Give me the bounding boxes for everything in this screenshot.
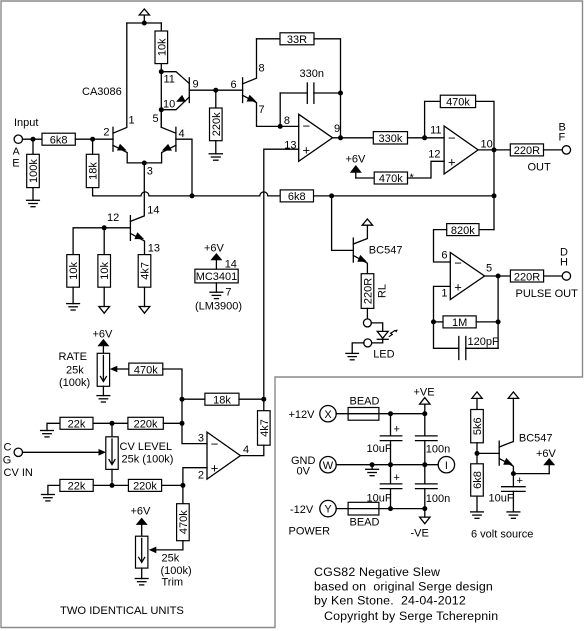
svg-text:(LM3900): (LM3900) <box>195 301 242 313</box>
capacitor 330n <box>280 83 340 103</box>
junction op1 inverting node <box>278 124 283 129</box>
resistor 18k input <box>86 139 99 187</box>
wiper arrow CV <box>99 449 107 456</box>
svg-text:470k: 470k <box>178 510 190 534</box>
+6V arrow for 470k* <box>346 154 367 179</box>
svg-text:+6V: +6V <box>131 506 152 518</box>
wire 10k#2 drop <box>103 228 105 255</box>
wire node3 down to Q14 collector <box>130 163 144 221</box>
resistor 18k slew <box>205 393 239 406</box>
+6V arrow MC3401 <box>204 243 225 270</box>
resistor 6k8 divider <box>471 464 484 496</box>
wire 5k6 to node <box>476 443 478 464</box>
wire CV in to pot <box>23 451 103 453</box>
ground under 220k <box>209 141 222 161</box>
+VE symbol BC547 source <box>508 392 518 399</box>
wire +12V rail <box>336 413 425 415</box>
transistor BC547 (6V source) <box>477 398 513 473</box>
svg-text:220R: 220R <box>514 271 540 283</box>
svg-text:based on original Serge desig: based on original Serge design <box>314 580 493 594</box>
svg-text:F: F <box>559 131 566 143</box>
svg-text:+12V: +12V <box>289 409 316 421</box>
wire input to 6k8 <box>23 138 43 140</box>
svg-text:33R: 33R <box>287 34 307 46</box>
junction base node 9/6 <box>213 88 218 93</box>
wire 0V rail <box>336 464 438 466</box>
junction 18k top <box>90 137 95 142</box>
resistor 470k* <box>374 172 414 185</box>
terminal pad X <box>320 406 336 422</box>
terminal pad LED- <box>364 339 372 347</box>
resistor 4k7 mid <box>138 255 151 288</box>
svg-text:8: 8 <box>284 115 290 127</box>
svg-text:RL: RL <box>377 284 389 298</box>
svg-text:470k: 470k <box>379 173 403 185</box>
wire op3 out <box>485 275 511 277</box>
wire 470k feedback right down <box>476 101 494 149</box>
svg-text:100n: 100n <box>426 444 450 456</box>
wire top rail <box>127 22 162 24</box>
svg-text:-VE: -VE <box>411 528 429 540</box>
ground 6k8 <box>471 496 484 518</box>
svg-text:7: 7 <box>225 287 231 299</box>
svg-text:6k8: 6k8 <box>472 471 484 489</box>
wire node to 220k <box>215 90 217 108</box>
transistor Q 12/14/13 <box>104 216 144 255</box>
svg-text:5: 5 <box>153 113 159 125</box>
junction BC547 base node <box>329 193 334 198</box>
wire 330k to op2 minus <box>408 137 445 139</box>
arrow emitter pin13 <box>134 232 144 239</box>
potentiometer RATE 25k <box>97 353 109 386</box>
svg-text:220R: 220R <box>514 145 540 157</box>
svg-text:6k8: 6k8 <box>288 191 306 203</box>
junction 220k upper right <box>180 421 185 426</box>
svg-text:3: 3 <box>147 166 153 178</box>
resistor 10k #1 <box>67 255 80 288</box>
wire lower row <box>93 484 128 486</box>
terminal pad LED+ <box>363 319 371 327</box>
junction -12V/10uF <box>388 506 393 511</box>
svg-text:H: H <box>560 256 568 268</box>
wire 470k to rail <box>163 369 207 444</box>
wire 470k bottom to trim wiper <box>153 541 183 550</box>
wire MC3401 pin7 <box>215 283 217 292</box>
junction pin4 base node <box>190 193 195 198</box>
transistor CA3086 Q 2/1/3 <box>113 127 144 163</box>
svg-text:Y: Y <box>324 504 332 516</box>
svg-text:11: 11 <box>430 125 441 137</box>
potentiometer trim 25k <box>136 536 148 568</box>
transistor CA3086 Q 6/8/7 <box>216 39 280 127</box>
resistor 470k RATE <box>129 363 163 376</box>
arrow emitter pin3 left <box>117 144 127 151</box>
junction pot bottom <box>110 483 115 488</box>
LED symbol <box>377 331 388 339</box>
arrow emitter pin7 <box>247 95 257 102</box>
IC box MC3401 <box>195 269 238 283</box>
svg-text:18k: 18k <box>88 162 100 180</box>
op-amp U1A (pins 8,13,9) <box>299 114 333 161</box>
svg-text:3: 3 <box>198 433 204 445</box>
svg-text:+: + <box>454 280 462 295</box>
junction -12V/-VE <box>422 506 427 511</box>
transistor CA3086 Q 5/4/3 <box>144 110 192 196</box>
svg-text:0V: 0V <box>297 465 311 477</box>
svg-text:10k: 10k <box>156 38 168 56</box>
capacitor 120pF <box>434 322 499 360</box>
terminal pad W <box>320 457 336 473</box>
svg-text:−: − <box>448 131 456 146</box>
svg-text:Input: Input <box>14 117 38 129</box>
wire into op1 minus <box>280 125 299 127</box>
svg-text:+: + <box>211 460 219 475</box>
ground 100k <box>27 188 40 207</box>
junction rail/6k8 row <box>492 193 497 198</box>
svg-text:+: + <box>394 472 400 484</box>
ground MC3401 <box>210 292 223 298</box>
-VE symbol under 4k7 <box>139 287 150 313</box>
svg-text:I: I <box>445 460 448 472</box>
wire +6V to 470k* <box>356 177 374 179</box>
resistor 820k <box>447 224 479 237</box>
terminal pad D/H pulse <box>562 272 570 280</box>
svg-text:12: 12 <box>428 149 440 161</box>
LED light arrows <box>389 331 395 337</box>
svg-text:+: + <box>448 155 456 170</box>
svg-text:8: 8 <box>259 63 265 75</box>
svg-text:220k: 220k <box>134 419 158 431</box>
wire 4k7 to op4 out <box>240 445 263 455</box>
svg-text:POWER: POWER <box>289 525 331 537</box>
+VE rail symbol top <box>139 9 149 23</box>
resistor 330k <box>373 132 407 145</box>
svg-text:(100k): (100k) <box>59 377 90 389</box>
wire 220k right <box>163 422 182 424</box>
wire base to 10k#1 <box>73 228 104 255</box>
resistor 220k lower <box>128 479 161 492</box>
resistor 6k8 input <box>42 133 75 146</box>
svg-text:10uF: 10uF <box>367 443 392 455</box>
svg-text:22k: 22k <box>68 481 86 493</box>
svg-text:1: 1 <box>129 115 135 127</box>
svg-text:TWO IDENTICAL UNITS: TWO IDENTICAL UNITS <box>60 605 184 617</box>
wiper arrow RATE <box>110 366 118 373</box>
junction 470k top node <box>180 483 185 488</box>
op-amp U1B (pins 11,12,10) <box>444 126 478 174</box>
wire 10k bottom to pin5 node <box>160 64 162 128</box>
svg-text:CV LEVEL: CV LEVEL <box>120 441 173 453</box>
svg-text:2: 2 <box>103 127 109 139</box>
svg-text:X: X <box>324 409 332 421</box>
svg-text:+6V: +6V <box>346 154 367 166</box>
svg-text:+VE: +VE <box>414 387 435 399</box>
svg-text:RATE: RATE <box>59 351 88 363</box>
resistor 22k upper <box>60 417 93 430</box>
svg-text:6 volt source: 6 volt source <box>471 529 533 541</box>
svg-text:25k: 25k <box>66 365 84 377</box>
wire cap left branch <box>279 93 281 126</box>
junction 18k left <box>180 397 185 402</box>
-VE symbol under 10k#2 <box>99 287 110 313</box>
junction 6V emitter node <box>511 471 516 476</box>
svg-text:220R: 220R <box>363 278 375 304</box>
resistor 5k6 <box>471 410 484 443</box>
svg-text:BEAD: BEAD <box>350 517 380 529</box>
svg-text:6k8: 6k8 <box>50 135 68 147</box>
junction 1M left <box>431 319 436 324</box>
junction base Q12 <box>102 225 107 230</box>
svg-text:(100k): (100k) <box>161 565 192 577</box>
wire 220R to pad <box>544 149 563 151</box>
svg-text:9: 9 <box>334 123 340 135</box>
lower 22k row: wire/ground <box>42 485 60 501</box>
wire op3 out down <box>497 276 499 348</box>
svg-text:470k: 470k <box>446 97 470 109</box>
ground 10k#1 <box>67 287 80 310</box>
terminal pad CV in <box>14 448 22 456</box>
svg-text:4k7: 4k7 <box>140 262 152 280</box>
op-amp U1D (pins 3,2,4) <box>207 432 240 479</box>
svg-text:10: 10 <box>481 139 493 151</box>
resistor 220k (mirror bias) <box>210 108 223 141</box>
svg-text:+: + <box>303 143 311 158</box>
svg-text:13: 13 <box>148 243 160 255</box>
resistor 33R <box>280 33 314 46</box>
svg-text:A: A <box>13 145 20 157</box>
capacitor 10uF 6V <box>502 474 525 512</box>
wire 33R right down to output node <box>314 39 341 138</box>
svg-text:100n: 100n <box>426 493 450 505</box>
resistor 22k lower <box>60 479 93 492</box>
svg-text:−: − <box>211 436 219 451</box>
svg-text:Copyright by Serge Tcherepnin: Copyright by Serge Tcherepnin <box>324 609 498 623</box>
junction 6V divider <box>475 451 480 456</box>
+VE symbol above BC547 <box>362 219 372 225</box>
junction pin5/10 node <box>159 107 164 112</box>
wire 470k* to op2 plus pin12 <box>408 161 445 178</box>
svg-text:4: 4 <box>179 128 185 140</box>
wire 10k top <box>160 23 162 31</box>
wire pin1 collector drop <box>113 23 127 133</box>
svg-text:9: 9 <box>193 79 199 91</box>
junction feedback tap <box>422 135 427 140</box>
wire LED to pad2 <box>371 339 382 343</box>
svg-text:25k (100k): 25k (100k) <box>122 453 174 465</box>
svg-text:by Ken Stone. 24-04-2012: by Ken Stone. 24-04-2012 <box>314 594 466 608</box>
svg-text:10k: 10k <box>68 262 80 280</box>
arrow emitter 6V source <box>503 458 513 465</box>
wire op2 out to 220R <box>478 149 510 151</box>
resistor 220R out <box>510 144 543 157</box>
resistor 4k7 vertical <box>258 399 271 445</box>
svg-text:+: + <box>394 424 400 436</box>
upper 22k row: wire/ground <box>41 423 60 437</box>
svg-text:11: 11 <box>164 74 175 86</box>
svg-text:1M: 1M <box>452 317 467 329</box>
+6V arrow source <box>536 448 557 474</box>
svg-text:4k7: 4k7 <box>259 419 271 437</box>
svg-text:-12V: -12V <box>290 504 314 516</box>
svg-text:OUT: OUT <box>528 162 552 174</box>
svg-text:BC547: BC547 <box>369 245 403 257</box>
svg-text:+6V: +6V <box>93 329 114 341</box>
wire op4 plus to lower row <box>183 468 207 486</box>
wire 18k row <box>182 398 205 400</box>
svg-text:120pF: 120pF <box>468 336 499 348</box>
svg-text:18k: 18k <box>213 395 231 407</box>
svg-text:PULSE OUT: PULSE OUT <box>516 288 579 300</box>
svg-text:CA3086: CA3086 <box>82 86 122 98</box>
junction pin11 node <box>159 69 164 74</box>
resistor 10k #2 <box>98 255 111 288</box>
ferrite bead upper <box>348 408 379 421</box>
wire to pulse pad <box>544 275 563 277</box>
-VE symbol power <box>420 517 430 524</box>
svg-text:1: 1 <box>441 288 447 300</box>
ferrite bead lower <box>348 502 379 515</box>
svg-text:6: 6 <box>441 250 447 262</box>
junction 18k/4k7 node <box>261 397 266 402</box>
svg-text:C: C <box>4 441 12 453</box>
svg-text:−: − <box>454 256 462 271</box>
svg-text:+6V: +6V <box>536 448 557 460</box>
wire 18k right <box>239 398 264 400</box>
svg-text:100k: 100k <box>28 159 40 183</box>
svg-text:820k: 820k <box>451 225 475 237</box>
wire op3 plus down <box>434 286 451 322</box>
transistor BC547 (LED driver) <box>332 196 368 274</box>
potentiometer CV LEVEL <box>106 423 118 485</box>
+6V arrow RATE <box>93 329 114 354</box>
svg-text:10k: 10k <box>99 262 111 280</box>
wire emitter to +6V arrow <box>513 473 549 475</box>
svg-text:+: + <box>517 475 523 487</box>
svg-text:7: 7 <box>259 104 265 116</box>
wire 6k8 feedback row (with hops) <box>93 188 494 196</box>
svg-text:W: W <box>323 460 334 472</box>
wire 6k8 to Q base <box>75 138 113 140</box>
svg-text:Trim: Trim <box>162 577 184 589</box>
resistor 470k feedback <box>440 95 475 108</box>
junction pot top <box>110 421 115 426</box>
svg-text:220k: 220k <box>133 481 157 493</box>
arrow emitter pin3 right <box>162 144 172 151</box>
svg-text:5k6: 5k6 <box>472 417 484 435</box>
ground LED <box>346 353 359 359</box>
svg-text:330k: 330k <box>378 133 402 145</box>
wire 220R to pad <box>366 308 368 319</box>
ground trim pot <box>135 568 148 585</box>
svg-text:10uF: 10uF <box>489 493 514 505</box>
junction op1 output node <box>338 135 343 140</box>
svg-text:BEAD: BEAD <box>350 396 380 408</box>
terminal pad Y <box>320 500 336 516</box>
wire 22k to pot top node <box>93 422 128 424</box>
resistor 220R pulse <box>510 270 543 283</box>
wire 220k lower right <box>162 484 183 486</box>
svg-text:330n: 330n <box>300 68 324 80</box>
svg-text:4: 4 <box>243 444 249 456</box>
svg-text:CGS82 Negative Slew: CGS82 Negative Slew <box>314 565 440 579</box>
terminal pad B/F OUT <box>562 146 570 154</box>
junction cap/output rail <box>338 91 343 96</box>
wire -12V rail <box>336 508 425 510</box>
resistor 1M <box>434 316 499 329</box>
capacitor 100n lower <box>416 465 438 517</box>
junction op3 output <box>496 274 501 279</box>
terminal pad I <box>438 457 454 473</box>
svg-text:5: 5 <box>486 263 492 275</box>
junction 0V ground tap <box>370 462 375 467</box>
junction 0V/100n <box>422 462 427 467</box>
svg-text:6: 6 <box>231 79 237 91</box>
wire feedback up left <box>425 101 441 137</box>
ground 10uF 6V <box>507 512 520 518</box>
arrow emitter pin10 <box>176 95 186 102</box>
+6V arrow trim <box>131 506 152 537</box>
resistor 470k trim feed <box>177 485 190 540</box>
junction op2 output <box>492 147 497 152</box>
capacitor 10uF upper <box>380 414 402 465</box>
svg-text:CV IN: CV IN <box>4 467 33 479</box>
svg-text:22k: 22k <box>68 419 86 431</box>
op-amp U1C (pins 6,1,5) <box>450 253 484 300</box>
transistor CA3086 Q 11/10/9 <box>161 72 216 110</box>
wire output rail down <box>493 150 495 230</box>
svg-text:25k: 25k <box>162 553 180 565</box>
+VE symbol 5k6 <box>472 392 482 410</box>
resistor 6k8 feedback <box>280 190 313 203</box>
svg-text:MC3401: MC3401 <box>196 271 238 283</box>
arrow BC547 emitter <box>357 255 367 262</box>
resistor 10k (top) <box>155 31 168 64</box>
capacitor 10uF lower <box>380 465 402 509</box>
svg-text:2: 2 <box>198 470 204 482</box>
wire 820k from rail <box>479 229 494 231</box>
junction +12V/10uF <box>388 411 393 416</box>
junction node 3 <box>142 161 147 166</box>
resistor 100k input <box>27 139 40 187</box>
wiper arrow trim <box>149 547 157 554</box>
wire op1 out to 330k <box>333 137 374 139</box>
junction 0V/10uF <box>388 462 393 467</box>
resistor 220k upper <box>128 417 163 430</box>
wire 820k to op3 minus <box>434 230 451 262</box>
ground RATE pot <box>97 386 110 402</box>
svg-text:10: 10 <box>163 99 175 111</box>
svg-text:G: G <box>3 454 12 466</box>
wire 33R left <box>257 38 281 40</box>
junction top rail <box>142 21 147 26</box>
svg-text:−: − <box>303 119 311 134</box>
svg-text:E: E <box>12 158 19 170</box>
wire pad to LED <box>371 323 383 332</box>
svg-text:LED: LED <box>373 349 394 361</box>
+VE symbol power <box>420 398 430 414</box>
resistor 220R RL <box>361 274 388 309</box>
wire pad2 to ground <box>352 343 364 354</box>
svg-text:14: 14 <box>147 205 159 217</box>
wire pin13 rail (op1 + input down to 18k node) <box>264 149 299 399</box>
svg-text:BC547: BC547 <box>519 433 553 445</box>
terminal pad input A/E <box>14 135 22 143</box>
capacitor 100n upper <box>416 414 438 465</box>
junction input/100k <box>31 137 36 142</box>
wire wiper to 470k <box>116 368 129 370</box>
junction +12V/+VE <box>422 411 427 416</box>
svg-text:220k: 220k <box>211 112 223 136</box>
